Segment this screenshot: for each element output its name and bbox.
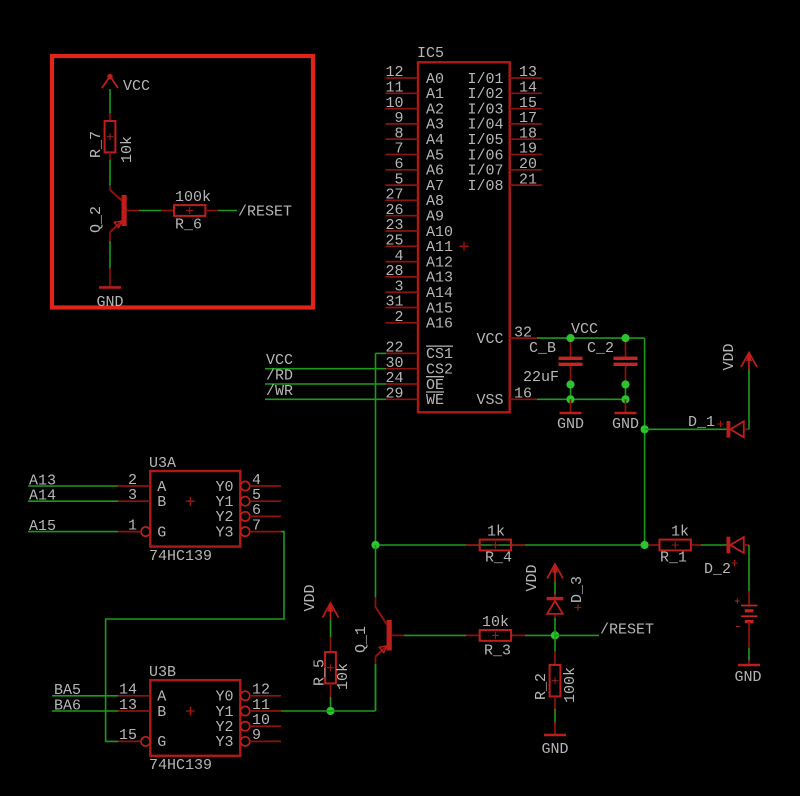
- IC5 pin name I/06: [467, 147, 503, 164]
- IC5 pin 5 (A7): [386, 171, 419, 188]
- wire /WR to pin 29: [265, 398, 386, 400]
- U3A pin 7 (Y3) with bubble: [241, 517, 281, 536]
- label R_7: [88, 131, 105, 158]
- svg-text:15: 15: [119, 727, 137, 744]
- wire /RD to pin 24: [265, 383, 386, 385]
- U3B pin 11 (Y1) with bubble: [241, 697, 281, 716]
- IC5 pin 14 (I/02): [510, 80, 542, 97]
- IC5 pin 23 (A10): [385, 217, 418, 234]
- IC5 pin 31 (A15): [385, 294, 418, 311]
- wire reset node to /RESET label: [555, 634, 599, 636]
- wire VCC net to pin 30: [265, 368, 386, 370]
- label 74HC139 (U3A): [149, 548, 212, 565]
- svg-text:32: 32: [514, 324, 532, 341]
- net label VCC (CS2 net): [266, 352, 293, 369]
- node reset junction: [551, 631, 559, 639]
- U3A pin 2 (A): [118, 472, 150, 489]
- IC5 pin 27 (A8): [385, 187, 418, 204]
- U3B pin 10 (Y2) with bubble: [241, 712, 281, 731]
- IC5 pin name A7: [426, 178, 444, 195]
- IC U3A name: [149, 455, 176, 472]
- wire VCC rail from pin 32: [537, 337, 645, 339]
- IC5 pin 12 (A0): [385, 64, 418, 81]
- IC5 pin name A10: [426, 224, 453, 241]
- svg-text:GND: GND: [612, 416, 639, 433]
- svg-text:13: 13: [119, 697, 137, 714]
- svg-text:GND: GND: [557, 416, 584, 433]
- wire R_7 to Q_2 collector: [109, 152, 111, 190]
- svg-text:29: 29: [385, 386, 403, 403]
- wire R_6 to /RESET label: [205, 210, 237, 212]
- label D_2: [704, 560, 738, 578]
- IC5 pin 9 (A3): [386, 110, 419, 127]
- IC5 pin name A12: [426, 254, 453, 271]
- node C_2 top: [621, 334, 629, 342]
- IC5 pin 21 (I/08): [510, 171, 542, 188]
- label Q_2: [88, 206, 105, 233]
- U3B pin 14 (A): [118, 682, 150, 699]
- IC5 pin name I/07: [467, 163, 503, 180]
- IC5 pin 4 (A12): [386, 248, 419, 265]
- label 1k (R_4): [487, 524, 505, 541]
- label R_2: [533, 673, 550, 700]
- IC5 pin name I/01: [467, 71, 503, 88]
- IC5 pin name A11: [426, 239, 453, 256]
- U3B pin 13 (B): [118, 697, 150, 714]
- svg-text:100k: 100k: [562, 667, 579, 703]
- svg-text:U3A: U3A: [149, 455, 176, 472]
- IC5 pin name VSS: [476, 392, 503, 409]
- wire Q_1 emitter down: [375, 657, 377, 712]
- svg-text:G: G: [157, 734, 166, 751]
- svg-text:1k: 1k: [671, 524, 689, 541]
- svg-text:D_3: D_3: [569, 576, 586, 603]
- wire Q_1 base to R_3: [392, 634, 467, 636]
- node D_1 branch: [641, 425, 649, 433]
- svg-text:VCC: VCC: [571, 321, 598, 338]
- wire node row (R_4 net): [376, 544, 645, 546]
- U3B pin 12 (Y0) with bubble: [241, 682, 281, 701]
- VDD label (top right): [721, 343, 738, 370]
- wire VCC rail corner down to R_1 node: [644, 338, 646, 545]
- IC5 pin name WE: [426, 392, 444, 409]
- label R_1: [660, 550, 687, 567]
- svg-text:VCC: VCC: [476, 331, 503, 348]
- IC U3A body: [150, 471, 240, 547]
- svg-text:22uF: 22uF: [523, 369, 559, 386]
- ground (C_B): [557, 399, 584, 433]
- svg-text:10k: 10k: [119, 136, 136, 163]
- svg-text:G: G: [157, 524, 166, 541]
- IC5 pin 17 (I/04): [510, 110, 542, 127]
- node R_4/R_1 junction: [641, 541, 649, 549]
- node C_2 bottom: [621, 380, 629, 403]
- IC5 pin name I/05: [467, 132, 503, 149]
- svg-text:1k: 1k: [487, 524, 505, 541]
- wire C_B to VSS rail: [570, 385, 572, 400]
- label C_2: [587, 340, 614, 357]
- IC IC5 body: [418, 62, 510, 412]
- svg-text:R_5: R_5: [312, 659, 329, 686]
- power VDD (top right): [741, 352, 757, 370]
- wire R_2 to GND: [554, 696, 556, 735]
- svg-text:R_2: R_2: [533, 673, 550, 700]
- VDD label (D_3): [524, 564, 541, 591]
- IC U3B body: [150, 680, 240, 756]
- wire R_5 to bottom net: [330, 683, 332, 711]
- wire collector node down to Q_1: [375, 545, 377, 608]
- svg-text:U3B: U3B: [149, 664, 176, 681]
- label 10k (R_7): [119, 136, 136, 163]
- power VDD (R_5): [323, 602, 339, 620]
- diode D_2: [727, 537, 750, 554]
- wire D_2 to battery: [748, 545, 750, 605]
- IC5 pin name OE: [426, 377, 444, 394]
- IC5 pin 3 (A14): [386, 278, 419, 295]
- wire reset node down to R_2: [554, 635, 556, 665]
- VDD label (R_5): [302, 584, 319, 611]
- label R_4: [485, 550, 512, 567]
- svg-text:WE: WE: [426, 392, 444, 409]
- IC5 pin 13 (I/01): [510, 64, 542, 81]
- svg-text:Q_1: Q_1: [353, 626, 370, 653]
- ground (R_2): [541, 735, 568, 758]
- resistor R_2: [550, 665, 561, 696]
- net label A13: [29, 472, 56, 489]
- wire to D_1: [645, 428, 727, 430]
- wire VDD to R_5: [330, 620, 332, 652]
- svg-text:VDD: VDD: [524, 564, 541, 591]
- svg-text:21: 21: [519, 171, 537, 188]
- resistor R_1: [649, 540, 701, 551]
- wire R_3 to reset node: [525, 634, 555, 636]
- IC5 pin name VCC: [476, 331, 503, 348]
- svg-text:100k: 100k: [175, 189, 211, 206]
- IC5 origin cross: [460, 242, 469, 251]
- IC IC5 name: [417, 45, 444, 62]
- svg-text:VSS: VSS: [476, 392, 503, 409]
- U3A pin 1 (G) with bubble: [118, 517, 150, 536]
- module frame (reset generator box): [52, 56, 313, 308]
- net label A14: [29, 488, 56, 505]
- label 100k (R_6): [175, 189, 211, 206]
- U3A pin 5 (Y1) with bubble: [241, 487, 281, 506]
- U3B pin 9 (Y3) with bubble: [241, 727, 281, 746]
- IC5 pin name CS2: [426, 362, 453, 379]
- resistor R_7: [105, 121, 116, 152]
- U3A pin 6 (Y2) with bubble: [241, 502, 281, 521]
- net label BA5: [54, 682, 81, 699]
- net label /RD: [266, 368, 293, 385]
- transistor Q_2: [110, 190, 127, 232]
- IC5 pin name I/08: [467, 178, 503, 195]
- capacitor C_2: [614, 338, 638, 384]
- IC5 pin name I/03: [467, 101, 503, 118]
- IC5 pin 26 (A9): [385, 202, 418, 219]
- label 74HC139 (U3B): [149, 757, 212, 774]
- IC5 pin 7 (A5): [386, 141, 419, 158]
- svg-text:VDD: VDD: [721, 343, 738, 370]
- svg-text:10k: 10k: [335, 663, 352, 690]
- ground (module): [96, 288, 123, 312]
- net label BA6: [54, 697, 81, 714]
- wire VCC to R_7: [109, 89, 111, 121]
- diode D_1: [727, 421, 750, 438]
- svg-text:R_3: R_3: [484, 643, 511, 660]
- resistor R_6: [174, 205, 205, 216]
- svg-text:Q_2: Q_2: [88, 206, 105, 233]
- node C_B top: [566, 334, 574, 342]
- label R_6: [175, 217, 202, 234]
- node C_B bottom: [566, 380, 574, 403]
- wire pin 22 down to Q_1 collector node: [376, 353, 387, 545]
- wire VDD to D_3: [554, 581, 556, 597]
- IC5 pin name A3: [426, 117, 444, 134]
- IC5 pin 20 (I/07): [510, 156, 542, 173]
- svg-text:R_1: R_1: [660, 550, 687, 567]
- IC5 pin name A6: [426, 163, 444, 180]
- IC5 pin 11 (A1): [385, 80, 418, 97]
- battery B1: [735, 598, 758, 626]
- U3A pin 4 (Y0) with bubble: [241, 472, 281, 491]
- wire D_1 to VDD: [748, 369, 750, 429]
- svg-text:/WR: /WR: [266, 383, 293, 400]
- svg-text:B: B: [157, 704, 166, 721]
- wire BA6 to U3B pin 13: [52, 710, 118, 712]
- svg-text:GND: GND: [96, 294, 123, 311]
- wire battery to GND: [748, 622, 750, 666]
- IC5 pin name A9: [426, 209, 444, 226]
- IC5 pin name A1: [426, 86, 444, 103]
- svg-text:1: 1: [128, 517, 137, 534]
- IC5 pin 19 (I/06): [510, 141, 542, 158]
- label R_3: [484, 643, 511, 660]
- wire R_1 to D_2: [701, 544, 727, 546]
- net label A15: [29, 518, 56, 535]
- IC5 pin 32 (VCC): [510, 324, 537, 341]
- svg-text:R_4: R_4: [485, 550, 512, 567]
- svg-text:/RESET: /RESET: [238, 204, 292, 221]
- label 10k (R_5): [335, 663, 352, 690]
- label Q_1: [353, 626, 370, 653]
- capacitor C_B: [559, 338, 583, 384]
- svg-text:R_6: R_6: [175, 217, 202, 234]
- IC5 pin name I/02: [467, 86, 503, 103]
- IC5 pin 16 (VSS): [510, 386, 537, 403]
- IC5 pin 15 (I/03): [510, 95, 542, 112]
- IC5 pin 24 (OE): [385, 370, 418, 387]
- IC5 pin name A0: [426, 71, 444, 88]
- svg-text:GND: GND: [541, 741, 568, 758]
- svg-text:VDD: VDD: [302, 584, 319, 611]
- svg-text:I/08: I/08: [467, 178, 503, 195]
- IC5 pin 6 (A6): [386, 156, 419, 173]
- svg-text:9: 9: [252, 727, 261, 744]
- power VDD (D_3): [547, 563, 563, 581]
- IC5 pin 28 (A13): [385, 263, 418, 280]
- diode D_3: [547, 597, 564, 614]
- IC5 pin name CS1: [426, 346, 453, 363]
- label D_1: [688, 414, 724, 431]
- resistor R_4: [466, 540, 525, 551]
- IC5 pin 8 (A4): [386, 125, 419, 142]
- IC5 pin name I/04: [467, 117, 503, 134]
- IC5 pin name A15: [426, 300, 453, 317]
- svg-text:D_1: D_1: [688, 414, 715, 431]
- U3A pin 3 (B): [118, 487, 150, 504]
- wire A14 to U3A pin 3: [28, 500, 118, 502]
- label 22uF (C_B): [523, 369, 559, 386]
- wire bottom net U3B Y1 to Q_1 emitter: [281, 664, 376, 711]
- IC5 pin 30 (CS2): [385, 355, 418, 372]
- svg-text:A16: A16: [426, 316, 453, 333]
- power VCC (module): [102, 74, 118, 88]
- IC U3B name: [149, 664, 176, 681]
- IC5 pin name A16: [426, 316, 453, 333]
- IC5 pin 22 (CS1): [385, 340, 418, 357]
- svg-text:R_7: R_7: [88, 131, 105, 158]
- wire U3A Y3 to U3B G: [106, 532, 284, 742]
- transistor Q_1: [376, 607, 392, 657]
- IC5 pin 10 (A2): [385, 95, 418, 112]
- resistor R_5: [325, 652, 336, 683]
- IC5 pin name A5: [426, 147, 444, 164]
- svg-text:B: B: [157, 494, 166, 511]
- IC5 pin name A2: [426, 101, 444, 118]
- svg-text:7: 7: [252, 517, 261, 534]
- label 100k (R_2): [562, 667, 579, 703]
- svg-text:GND: GND: [734, 669, 761, 686]
- net label /WR: [266, 383, 293, 400]
- svg-text:16: 16: [514, 386, 532, 403]
- node Q_1 collector junction: [371, 541, 379, 549]
- label 10k (R_3): [482, 614, 509, 631]
- wire Q_2 emitter to GND: [109, 232, 111, 287]
- wire A13 to U3A pin 2: [28, 485, 118, 487]
- svg-text:/RESET: /RESET: [600, 622, 654, 639]
- svg-text:74HC139: 74HC139: [149, 757, 212, 774]
- svg-text:IC5: IC5: [417, 45, 444, 62]
- net label /RESET (module): [238, 204, 292, 221]
- svg-text:C_B: C_B: [529, 340, 556, 357]
- net label VCC (rail): [571, 321, 598, 338]
- svg-text:Y3: Y3: [215, 524, 233, 541]
- svg-text:3: 3: [128, 487, 137, 504]
- resistor R_3: [466, 630, 525, 641]
- IC5 pin 25 (A11): [385, 233, 418, 250]
- IC5 pin 18 (I/05): [510, 125, 542, 142]
- label D_3: [569, 576, 586, 611]
- VCC label (module): [123, 78, 150, 95]
- net label /RESET: [600, 622, 654, 639]
- IC5 pin name A4: [426, 132, 444, 149]
- ground (battery): [734, 665, 761, 686]
- IC5 pin 29 (WE): [385, 386, 418, 403]
- IC5 pin name A8: [426, 193, 444, 210]
- IC5 pin name A14: [426, 285, 453, 302]
- svg-text:C_2: C_2: [587, 340, 614, 357]
- U3A pin names inside: [157, 479, 233, 542]
- U3B pin 15 (G) with bubble: [118, 727, 150, 746]
- svg-text:2: 2: [394, 309, 403, 326]
- wire Q_2 base to R_6: [127, 210, 174, 212]
- svg-text:D_2: D_2: [704, 561, 731, 578]
- label R_5: [312, 659, 329, 686]
- label 1k (R_1): [671, 524, 689, 541]
- svg-text:VCC: VCC: [123, 78, 150, 95]
- node R_5 junction: [326, 707, 334, 715]
- IC5 pin name A13: [426, 270, 453, 287]
- wire C_2 to VSS rail: [625, 385, 627, 400]
- svg-text:Y3: Y3: [215, 734, 233, 751]
- wire BA5 to U3B pin 14: [52, 695, 118, 697]
- label C_B: [529, 340, 556, 357]
- wire A15 to U3A pin 1: [28, 531, 118, 533]
- ground (C_2): [612, 399, 639, 433]
- wire D_3 to reset node: [554, 614, 556, 635]
- IC5 pin 2 (A16): [386, 309, 419, 326]
- wire VSS rail from pin 16: [537, 398, 626, 400]
- svg-text:74HC139: 74HC139: [149, 548, 212, 565]
- svg-text:10k: 10k: [482, 614, 509, 631]
- U3B pin names inside: [157, 689, 233, 752]
